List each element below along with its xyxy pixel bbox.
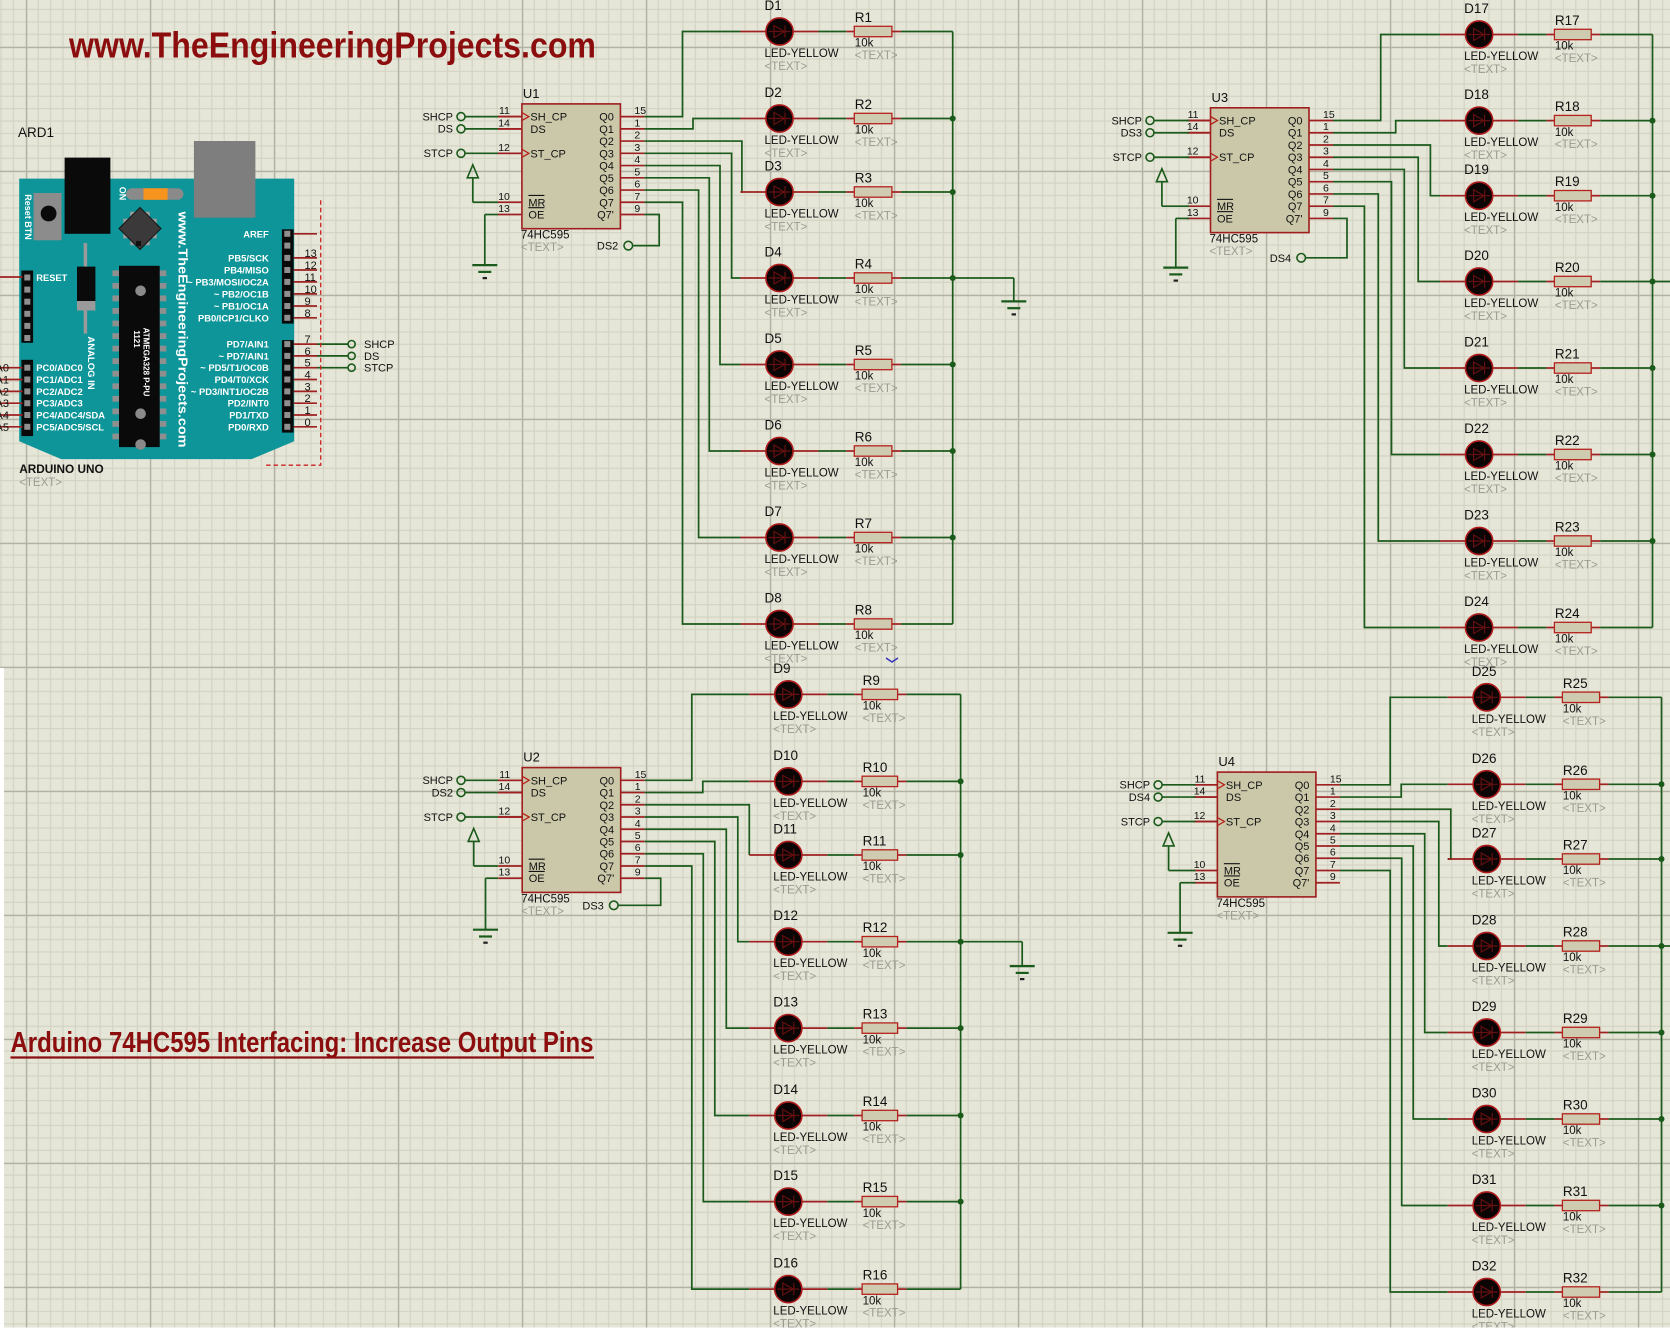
svg-text:LED-YELLOW: LED-YELLOW (1464, 644, 1538, 656)
svg-text:R20: R20 (1555, 260, 1580, 275)
svg-text:LED-YELLOW: LED-YELLOW (1472, 1136, 1546, 1148)
wire bus column 4 (1661, 697, 1663, 1292)
wire D3 to R3 (819, 191, 847, 193)
svg-text:10k: 10k (855, 544, 874, 556)
svg-text:1121: 1121 (132, 330, 141, 348)
svg-text:DS: DS (530, 124, 545, 136)
svg-text:<TEXT>: <TEXT> (1464, 571, 1507, 583)
svg-text:LED-YELLOW: LED-YELLOW (1472, 801, 1546, 813)
svg-text:D15: D15 (773, 1168, 798, 1183)
resistor R28 10k (1554, 925, 1608, 977)
arduino lower pin labels (191, 339, 269, 433)
wire R9 to bus (907, 693, 961, 695)
shift register U3 74HC595 (1187, 90, 1335, 258)
svg-text:<TEXT>: <TEXT> (19, 477, 62, 489)
svg-text:www.TheEngineeringProjects.com: www.TheEngineeringProjects.com (68, 24, 596, 65)
svg-text:R1: R1 (855, 10, 872, 25)
svg-text:A5: A5 (0, 422, 9, 434)
svg-text:R19: R19 (1555, 174, 1580, 189)
svg-text:<TEXT>: <TEXT> (855, 50, 898, 62)
resistor R15 10k (854, 1180, 907, 1232)
svg-text:<TEXT>: <TEXT> (1563, 965, 1606, 977)
arduino lower pin numbers (305, 334, 311, 429)
arduino right pin stubs (294, 234, 317, 427)
svg-text:DS: DS (1219, 128, 1234, 140)
svg-text:Q2: Q2 (599, 136, 614, 148)
svg-text:STCP: STCP (1121, 816, 1150, 828)
wire D20 to R20 (1518, 281, 1546, 283)
svg-text:10k: 10k (1563, 1039, 1582, 1051)
svg-text:Q6: Q6 (1295, 853, 1310, 865)
svg-text:6: 6 (1330, 847, 1336, 859)
arduino capacitor (84, 243, 88, 267)
svg-text:5: 5 (1323, 170, 1329, 182)
svg-text:A2: A2 (0, 386, 9, 398)
svg-text:OE: OE (1217, 213, 1233, 225)
resistor R22 10k (1546, 433, 1600, 485)
svg-text:~ PD3/INT1/OC2B: ~ PD3/INT1/OC2B (191, 386, 269, 397)
power symbol at U2 MR (468, 828, 498, 866)
junction at R18 (1650, 118, 1656, 124)
svg-text:1: 1 (635, 781, 641, 793)
wire U1 Q6 to D7 (644, 190, 740, 537)
svg-text:LED-YELLOW: LED-YELLOW (765, 209, 839, 221)
resistor R5 10k (846, 343, 901, 395)
svg-text:13: 13 (1187, 207, 1199, 219)
svg-text:LED-YELLOW: LED-YELLOW (773, 798, 847, 810)
svg-text:STCP: STCP (424, 148, 453, 160)
junction at R29 (1659, 1030, 1665, 1036)
wire U2 Q5 to D14 (645, 842, 750, 1116)
svg-text:D10: D10 (773, 748, 798, 763)
svg-text:R24: R24 (1555, 606, 1580, 621)
svg-text:LED-YELLOW: LED-YELLOW (773, 872, 847, 884)
svg-text:OE: OE (528, 210, 544, 222)
svg-text:PD2/INT0: PD2/INT0 (228, 398, 269, 409)
svg-text:PB5/SCK: PB5/SCK (228, 252, 269, 263)
wire U2 Q3 to D12 (645, 817, 750, 942)
arduino digital header upper (282, 229, 294, 323)
svg-text:Q4: Q4 (600, 824, 615, 836)
svg-text:10k: 10k (863, 1122, 882, 1134)
svg-text:<TEXT>: <TEXT> (863, 1308, 906, 1320)
svg-text:3: 3 (634, 142, 640, 154)
svg-text:Reset BTN: Reset BTN (23, 194, 33, 240)
svg-text:9: 9 (635, 867, 641, 879)
wire D22 to R22 (1518, 454, 1546, 456)
svg-text:15: 15 (1330, 773, 1342, 785)
svg-text:R31: R31 (1563, 1184, 1588, 1199)
svg-text:13: 13 (1194, 871, 1206, 883)
svg-text:R9: R9 (863, 673, 880, 688)
svg-text:<TEXT>: <TEXT> (855, 643, 898, 655)
svg-text:R22: R22 (1555, 433, 1580, 448)
svg-text:10k: 10k (1555, 461, 1574, 473)
junction at R12 (958, 939, 964, 945)
svg-text:6: 6 (634, 179, 640, 191)
svg-text:R2: R2 (855, 97, 872, 112)
svg-text:10k: 10k (855, 630, 874, 642)
svg-text:DS2: DS2 (432, 787, 453, 799)
svg-text:LED-YELLOW: LED-YELLOW (1464, 558, 1538, 570)
svg-text:STCP: STCP (1113, 152, 1142, 164)
svg-text:7: 7 (635, 854, 641, 866)
svg-text:Q4: Q4 (1295, 829, 1310, 841)
node SHCP at U3 (1111, 115, 1210, 127)
wire U4 Q6 to D31 (1340, 858, 1448, 1205)
svg-text:SHCP: SHCP (422, 775, 453, 787)
svg-text:Q0: Q0 (600, 775, 615, 787)
ground at U2 OE (473, 878, 498, 942)
svg-text:10k: 10k (1563, 952, 1582, 964)
junction at R10 (958, 778, 964, 784)
power symbol at U1 MR (467, 165, 498, 203)
wire D2 to R2 (819, 118, 847, 120)
LED D3 (741, 159, 839, 234)
svg-text:D32: D32 (1472, 1259, 1497, 1274)
svg-text:74HC595: 74HC595 (1210, 234, 1259, 246)
svg-text:R3: R3 (855, 171, 872, 186)
wire D29 to R29 (1526, 1032, 1555, 1034)
svg-text:10k: 10k (1555, 547, 1574, 559)
svg-text:Q7': Q7' (1293, 878, 1310, 890)
wire D19 to R19 (1518, 195, 1546, 197)
junction at R31 (1659, 1203, 1665, 1209)
svg-text:RESET: RESET (36, 273, 67, 283)
wire U4 Q1 to D26 (1340, 784, 1448, 797)
power symbol at U4 MR (1163, 833, 1195, 871)
svg-text:11: 11 (499, 769, 510, 781)
wire R19 to bus (1600, 195, 1652, 197)
wire R23 to bus (1600, 540, 1652, 542)
svg-text:D19: D19 (1464, 162, 1489, 177)
svg-text:<TEXT>: <TEXT> (765, 222, 808, 234)
svg-text:10k: 10k (1563, 791, 1582, 803)
arduino analog header (21, 360, 33, 436)
wire U1 Q7 to D8 (644, 202, 740, 624)
svg-text:Q5: Q5 (1288, 177, 1303, 189)
svg-text:Q7: Q7 (599, 197, 614, 209)
svg-text:D31: D31 (1472, 1172, 1497, 1187)
LED D23 (1440, 508, 1538, 583)
wire D25 to R25 (1526, 696, 1555, 698)
junction at R2 (950, 116, 956, 122)
wire U1 Q3 to D4 (644, 153, 740, 278)
svg-text:Q7': Q7' (597, 210, 614, 222)
cursor mark (886, 658, 898, 662)
svg-text:DS3: DS3 (582, 900, 603, 912)
node STCP at U2 (424, 812, 523, 824)
LED D27 (1448, 826, 1546, 901)
svg-text:A0: A0 (0, 363, 9, 375)
svg-text:<TEXT>: <TEXT> (1472, 1062, 1515, 1074)
svg-text:DS: DS (364, 351, 379, 363)
svg-text:LED-YELLOW: LED-YELLOW (1464, 385, 1538, 397)
LED D12 (749, 908, 847, 983)
LED D9 (749, 661, 847, 736)
svg-text:D26: D26 (1472, 751, 1497, 766)
svg-text:D12: D12 (773, 908, 798, 923)
svg-text:R14: R14 (863, 1094, 888, 1109)
svg-text:Q5: Q5 (1295, 841, 1310, 853)
svg-text:LED-YELLOW: LED-YELLOW (1472, 1309, 1546, 1321)
svg-text:DS2: DS2 (597, 241, 618, 253)
svg-text:U1: U1 (523, 86, 540, 101)
svg-text:LED-YELLOW: LED-YELLOW (1464, 212, 1538, 224)
svg-text:D6: D6 (765, 418, 782, 433)
svg-text:<TEXT>: <TEXT> (855, 137, 898, 149)
svg-text:<TEXT>: <TEXT> (863, 800, 906, 812)
svg-text:10k: 10k (1555, 374, 1574, 386)
svg-text:<TEXT>: <TEXT> (773, 1145, 816, 1157)
svg-text:<TEXT>: <TEXT> (855, 297, 898, 309)
svg-text:PC4/ADC4/SDA: PC4/ADC4/SDA (36, 410, 105, 421)
LED D16 (749, 1256, 847, 1331)
wire D16 to R16 (827, 1288, 854, 1290)
svg-text:ST_CP: ST_CP (531, 812, 566, 824)
svg-text:10k: 10k (863, 1034, 882, 1046)
svg-text:12: 12 (498, 142, 510, 154)
svg-text:ON: ON (118, 187, 128, 201)
wire D17 to R17 (1518, 34, 1546, 36)
svg-text:12: 12 (499, 806, 511, 818)
wire R30 to bus (1609, 1118, 1662, 1120)
svg-text:9: 9 (1330, 871, 1336, 883)
svg-text:DS3: DS3 (1121, 128, 1142, 140)
ground at U1 OE (472, 215, 498, 279)
svg-text:ANALOG IN: ANALOG IN (85, 336, 96, 389)
svg-text:PC0/ADC0: PC0/ADC0 (36, 362, 82, 373)
svg-text:7: 7 (1323, 195, 1329, 207)
svg-text:R11: R11 (863, 834, 887, 849)
node DS4 at U4 (1129, 792, 1218, 804)
power symbol at U3 MR (1156, 169, 1189, 207)
svg-text:SHCP: SHCP (364, 339, 395, 351)
svg-text:D22: D22 (1464, 421, 1489, 436)
svg-text:<TEXT>: <TEXT> (855, 211, 898, 223)
LED D7 (741, 504, 839, 579)
svg-text:10k: 10k (1563, 865, 1582, 877)
resistor R3 10k (846, 171, 901, 223)
resistor R26 10k (1554, 763, 1608, 815)
svg-text:<TEXT>: <TEXT> (773, 724, 816, 736)
node STCP at U4 (1121, 816, 1218, 828)
node STCP (348, 364, 355, 371)
arduino upper pin numbers (305, 248, 317, 320)
svg-text:STCP: STCP (364, 363, 393, 375)
svg-text:<TEXT>: <TEXT> (855, 556, 898, 568)
svg-text:<TEXT>: <TEXT> (1464, 398, 1507, 410)
wire D14 to R14 (827, 1115, 854, 1117)
resistor R25 10k (1554, 676, 1608, 728)
svg-text:Q1: Q1 (600, 788, 615, 800)
svg-text:1: 1 (1323, 121, 1329, 133)
wire D28 to R28 (1526, 945, 1555, 947)
svg-text:<TEXT>: <TEXT> (1464, 150, 1507, 162)
svg-text:SHCP: SHCP (422, 111, 453, 123)
svg-text:D7: D7 (765, 504, 782, 519)
arduino left pin names (0, 363, 9, 434)
svg-text:9: 9 (634, 203, 640, 215)
resistor R4 10k (846, 257, 901, 309)
canvas edge (0, 668, 4, 1332)
arduino ATMEGA328 chip (112, 266, 166, 450)
svg-text:PC1/ADC1: PC1/ADC1 (36, 374, 82, 385)
svg-text:DS: DS (1226, 792, 1241, 804)
arduino usb connector (194, 141, 256, 218)
wire D18 to R18 (1518, 120, 1546, 122)
svg-text:~ PB1/OC1A: ~ PB1/OC1A (214, 301, 269, 312)
svg-text:R25: R25 (1563, 676, 1588, 691)
svg-text:D8: D8 (765, 591, 782, 606)
LED D8 (741, 591, 839, 666)
wire D15 to R15 (827, 1201, 854, 1203)
svg-text:D1: D1 (765, 0, 782, 13)
svg-text:R26: R26 (1563, 763, 1588, 778)
svg-text:<TEXT>: <TEXT> (863, 1220, 906, 1232)
junction at R30 (1659, 1116, 1665, 1122)
svg-text:<TEXT>: <TEXT> (1216, 910, 1259, 922)
svg-text:SH_CP: SH_CP (530, 112, 567, 124)
svg-text:Q6: Q6 (600, 849, 615, 861)
svg-text:R17: R17 (1555, 13, 1580, 28)
svg-text:R18: R18 (1555, 99, 1580, 114)
svg-text:10k: 10k (855, 457, 874, 469)
ground of bus column 1 (953, 278, 1027, 314)
svg-text:~ PD7/AIN1: ~ PD7/AIN1 (219, 350, 269, 361)
svg-text:<TEXT>: <TEXT> (1563, 1051, 1606, 1063)
resistor R30 10k (1554, 1098, 1608, 1150)
svg-text:LED-YELLOW: LED-YELLOW (773, 1045, 847, 1057)
junction at R5 (950, 362, 956, 368)
svg-text:2: 2 (635, 793, 641, 805)
wire U4 Q5 to D30 (1340, 846, 1448, 1119)
svg-text:R29: R29 (1563, 1011, 1588, 1026)
svg-text:<TEXT>: <TEXT> (773, 971, 816, 983)
svg-text:<TEXT>: <TEXT> (1472, 976, 1515, 988)
node SHCP (348, 341, 355, 348)
wire U2 Q2 to D11 (645, 805, 750, 855)
svg-text:www.TheEngineeringProjects.com: www.TheEngineeringProjects.com (176, 210, 190, 447)
node STCP at U1 (424, 148, 522, 160)
junction at R20 (1650, 279, 1656, 285)
svg-text:LED-YELLOW: LED-YELLOW (765, 295, 839, 307)
svg-text:LED-YELLOW: LED-YELLOW (765, 554, 839, 566)
wire R6 to bus (901, 450, 953, 452)
wire U4 Q2 to D27 (1340, 809, 1451, 859)
svg-text:<TEXT>: <TEXT> (1472, 889, 1515, 901)
svg-text:~ PB2/OC1B: ~ PB2/OC1B (214, 288, 269, 299)
svg-text:OE: OE (1224, 878, 1240, 890)
wire U3 Q1 to D18 (1333, 121, 1440, 133)
LED D30 (1448, 1086, 1546, 1161)
svg-text:<TEXT>: <TEXT> (773, 885, 816, 897)
wire R17 to bus (1600, 34, 1652, 36)
svg-text:10k: 10k (863, 788, 882, 800)
svg-text:10k: 10k (855, 198, 874, 210)
svg-text:<TEXT>: <TEXT> (855, 470, 898, 482)
wire R28 to bus (1609, 945, 1662, 947)
svg-text:<TEXT>: <TEXT> (1464, 64, 1507, 76)
svg-text:LED-YELLOW: LED-YELLOW (773, 958, 847, 970)
svg-text:4: 4 (1323, 158, 1329, 170)
wire U4 Q7 to D32 (1340, 870, 1448, 1292)
svg-text:<TEXT>: <TEXT> (1472, 814, 1515, 826)
resistor R11 10k (854, 834, 907, 886)
svg-text:U3: U3 (1212, 90, 1229, 105)
svg-text:<TEXT>: <TEXT> (765, 394, 808, 406)
svg-text:11: 11 (1188, 109, 1199, 121)
wire U3 Q3 to D20 (1333, 157, 1440, 281)
svg-text:D2: D2 (765, 85, 782, 100)
svg-text:10k: 10k (1555, 127, 1574, 139)
wire R7 to bus (901, 537, 953, 539)
svg-text:ARD1: ARD1 (18, 125, 54, 140)
wire U4 Q0 to D25 (1340, 697, 1448, 785)
wire U3 Q2 to D19 (1333, 145, 1440, 196)
svg-text:<TEXT>: <TEXT> (521, 906, 564, 918)
svg-text:D14: D14 (773, 1082, 798, 1097)
wire U3 Q4 to D21 (1333, 169, 1440, 368)
svg-text:74HC595: 74HC595 (1216, 898, 1265, 910)
svg-text:12: 12 (1194, 810, 1206, 822)
wire R32 to bus (1609, 1291, 1662, 1293)
svg-text:PC2/ADC2: PC2/ADC2 (36, 386, 82, 397)
svg-text:<TEXT>: <TEXT> (1210, 246, 1253, 258)
resistor R24 10k (1546, 606, 1600, 658)
svg-text:R30: R30 (1563, 1098, 1588, 1113)
svg-text:Q7: Q7 (600, 861, 615, 873)
svg-text:D23: D23 (1464, 508, 1489, 523)
wire R4 to bus (901, 277, 953, 279)
junction at R6 (950, 448, 956, 454)
svg-text:5: 5 (1330, 835, 1336, 847)
svg-text:<TEXT>: <TEXT> (773, 1058, 816, 1070)
svg-text:SHCP: SHCP (1111, 115, 1142, 127)
arduino reset button (34, 193, 62, 240)
LED D17 (1440, 1, 1538, 76)
shift register U1 74HC595 (498, 86, 646, 254)
svg-text:<TEXT>: <TEXT> (1555, 214, 1598, 226)
svg-text:<TEXT>: <TEXT> (863, 874, 906, 886)
svg-text:<TEXT>: <TEXT> (1472, 1235, 1515, 1247)
svg-text:PD1/TXD: PD1/TXD (229, 410, 269, 421)
svg-text:<TEXT>: <TEXT> (1563, 716, 1606, 728)
wire D8 to R8 (819, 623, 847, 625)
svg-text:<TEXT>: <TEXT> (855, 383, 898, 395)
svg-text:<TEXT>: <TEXT> (1555, 646, 1598, 658)
wire bus column 2 (960, 694, 962, 1289)
wire D5 to R5 (819, 364, 847, 366)
junction at R14 (958, 1113, 964, 1119)
wire R18 to bus (1600, 120, 1652, 122)
wire D26 to R26 (1526, 783, 1555, 785)
wire D7 to R7 (819, 537, 847, 539)
svg-text:<TEXT>: <TEXT> (1464, 484, 1507, 496)
svg-text:14: 14 (1187, 121, 1199, 133)
wire R1 to bus (901, 31, 953, 33)
svg-text:ST_CP: ST_CP (1226, 817, 1261, 829)
junction at R22 (1650, 452, 1656, 458)
svg-text:11: 11 (1194, 773, 1205, 785)
wire D27 to R27 (1526, 858, 1555, 860)
svg-text:ST_CP: ST_CP (1219, 152, 1254, 164)
svg-text:10k: 10k (863, 948, 882, 960)
svg-text:U2: U2 (523, 750, 540, 765)
wire D11 to R11 (827, 854, 854, 856)
arduino crystal chip (119, 208, 161, 250)
svg-text:<TEXT>: <TEXT> (1472, 727, 1515, 739)
